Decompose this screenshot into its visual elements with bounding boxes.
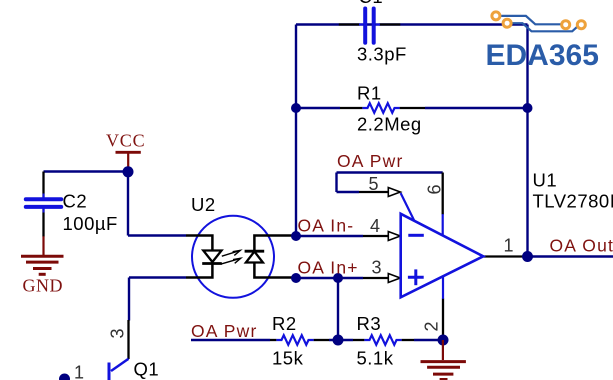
svg-text:3.3pF: 3.3pF [357,44,407,65]
svg-text:R2: R2 [272,313,297,334]
resistor R2 pin stubs [270,339,276,341]
svg-text:1: 1 [504,235,514,255]
svg-text:U2: U2 [191,194,216,215]
junction node output [522,251,533,262]
ground GND left [21,236,64,274]
wire top net C1/R1 loop top segment [296,23,528,25]
svg-text:Q1: Q1 [134,358,160,379]
capacitor C1 [359,9,380,43]
LED diode of U2 [202,251,222,264]
svg-text:5.1k: 5.1k [357,348,394,369]
svg-text:GND: GND [23,276,64,296]
wire OA In+ drop to R2/R3 node [337,278,339,340]
svg-text:C2: C2 [63,190,88,211]
power symbol VCC [116,152,141,170]
svg-text:1: 1 [74,362,84,380]
logo trace B [512,23,578,31]
junction node OA In+ mid [333,273,343,283]
wire output to OA Out [528,255,613,257]
svg-text:OA In+: OA In+ [298,257,359,277]
op-amp U1 pin 5 [359,188,400,197]
resistor R3 [364,335,401,345]
wire OA Pwr bottom to R2 [191,339,270,341]
logo pad 2 [503,19,511,27]
optocoupler U2 right bracket bottom [254,263,296,278]
op-amp pin5 internal diagonal [401,193,415,221]
svg-text:2: 2 [422,321,442,331]
svg-text:C1: C1 [359,0,384,7]
svg-text:VCC: VCC [106,130,145,150]
resistor R1 pin stubs [340,107,362,109]
svg-text:OA In-: OA In- [298,215,355,235]
svg-text:R3: R3 [357,313,382,334]
op-amp U1 pin 3 [363,274,400,283]
capacitor C2 [26,194,61,213]
svg-text:15k: 15k [272,348,304,369]
op-amp U1 pin 6 [442,173,444,215]
resistor R3 pin stubs [353,339,364,341]
op-amp U1 triangle [401,214,484,297]
transistor Q1 [109,359,129,380]
op-amp pin6 internal stub [442,214,444,235]
op-amp minus sign [408,234,424,237]
transistor Q1 pin 3 [127,320,129,359]
wire OA Pwr branch down [335,173,337,193]
wire right vertical rail from top to output [526,25,528,257]
opto arrow 1 [222,250,241,256]
wire R1 row left [296,107,340,109]
wire OA Pwr top to pin6 [337,171,443,173]
svg-text:OA Out: OA Out [550,235,613,255]
op-amp U1 pin 4 [363,232,400,241]
svg-text:2.2Meg: 2.2Meg [357,114,422,135]
resistor R1 [362,103,399,113]
junction node R2/R3 [333,335,344,346]
opto arrow 2 [221,258,241,264]
wire OA Pwr branch to pin5 [337,191,360,193]
wire OA In+ node to pin3 [296,277,363,279]
op-amp U1 pin 1 [483,255,527,257]
svg-text:6: 6 [425,184,445,194]
junction node VCC [123,166,134,177]
wire OA In- node to pin4 [296,235,363,237]
optocoupler U2 circle [192,216,274,298]
capacitor C1 pin stubs [339,23,360,25]
junction node OA In+ left [291,273,301,283]
wire VCC junction down to opto anode [127,172,129,236]
optocoupler U2 right bracket top [254,236,296,252]
wire R1 row right [425,107,528,109]
op-amp pin2 internal stub [442,276,444,299]
junction node Q1 base [59,374,70,380]
photodiode of U2 [245,251,265,262]
junction node GND right [438,335,449,346]
svg-text:TLV2780ID: TLV2780ID [533,190,613,211]
optocoupler U2 left bracket bottom [186,264,212,278]
logo pad 1 [492,12,500,20]
wire R2 to R3 [329,339,353,341]
svg-text:3: 3 [372,258,382,278]
wire opto cathode down to Q1 collector [128,278,130,321]
logo pad 4 [577,21,585,29]
svg-text:R1: R1 [357,83,382,104]
wire R3 to GND node [414,339,443,341]
logo pad 3 [562,21,570,29]
wire VCC row to C2 [44,170,129,172]
wire opto anode horizontal [128,234,186,236]
op-amp U1 pin 2 [442,299,444,341]
junction node R1 right [523,103,533,113]
svg-text:100µF: 100µF [63,213,118,234]
resistor R2 [276,335,313,345]
ground GND right [421,340,466,380]
optocoupler U2 left bracket top [186,236,212,251]
junction node OA In- [291,231,301,241]
svg-text:OA Pwr: OA Pwr [191,321,258,341]
capacitor C2 pin stubs [42,172,44,199]
wire opto cathode horizontal [129,276,186,278]
svg-text:4: 4 [370,216,380,236]
svg-text:3: 3 [108,328,128,338]
svg-text:U1: U1 [533,170,558,191]
svg-text:5: 5 [369,174,379,194]
wire left vertical rail from top to OA In- [295,25,297,237]
logo trace A [501,16,562,24]
op-amp plus sign [408,269,424,285]
junction node R1 left [291,103,301,113]
svg-text:OA Pwr: OA Pwr [337,151,404,171]
svg-text:EDA365: EDA365 [486,39,599,72]
